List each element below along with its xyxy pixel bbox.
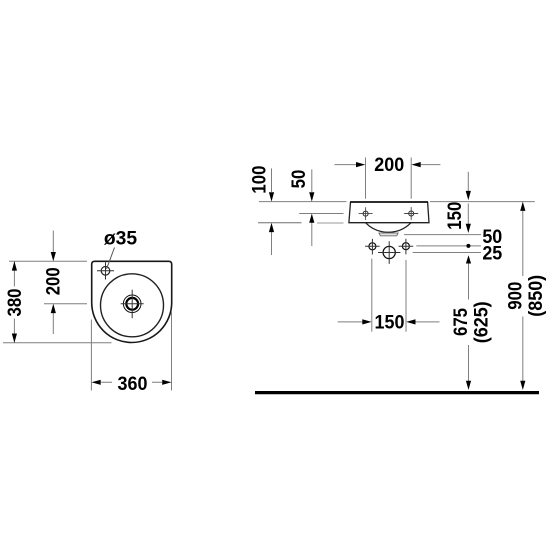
leader line ø35	[107, 248, 115, 270]
mounting hole left	[363, 211, 368, 216]
svg-text:360: 360	[118, 372, 148, 394]
faucet hole circle	[101, 267, 110, 276]
drain crosshair	[121, 290, 144, 318]
dim 150 right arrows	[466, 191, 471, 233]
svg-text:200: 200	[374, 154, 404, 176]
svg-text:150: 150	[444, 202, 465, 230]
drain stub	[379, 233, 398, 236]
floor line	[255, 391, 539, 394]
drain circle front	[383, 246, 395, 258]
dim 200 stems	[52, 231, 54, 335]
dim 675(625) arrows	[466, 255, 471, 390]
svg-text:675: 675	[450, 308, 471, 336]
drain inner circle	[126, 298, 138, 310]
dim 200 top line stubs	[334, 164, 440, 166]
svg-text:25: 25	[482, 242, 502, 264]
mounting hole left crosshair	[359, 207, 373, 220]
basin front outline	[349, 202, 429, 223]
fixing hole right crosshair	[399, 239, 414, 255]
dim 900(850) stem	[522, 211, 524, 381]
dim 150 bottom stubs	[338, 321, 440, 323]
ext line 150 bottom left (from left fixing hole)	[371, 259, 373, 332]
ext line top (y=261.3)	[9, 260, 87, 262]
dim 360 line	[101, 381, 162, 383]
dim 380 arrows	[12, 261, 17, 343]
ext line 150 bottom right (from right fixing hole)	[405, 260, 407, 332]
level line basin bottom y=222.8	[258, 222, 302, 224]
dim 200 top arrows	[356, 162, 421, 167]
dim 360 arrows	[91, 380, 171, 385]
bowl circle	[101, 274, 164, 337]
level line fixing holes y=245.9	[416, 245, 481, 247]
ext line drain center (y=303.8)	[44, 303, 87, 305]
faucet hole crosshair	[97, 262, 114, 279]
mounting hole right	[409, 211, 414, 216]
mounting hole right crosshair	[404, 207, 418, 220]
bowl underside arc	[366, 223, 412, 233]
level line top y=201.6 right part	[430, 201, 535, 203]
svg-text:900: 900	[505, 282, 526, 310]
svg-text:50: 50	[288, 170, 309, 189]
ext line 360 left	[90, 320, 92, 391]
dim 900(850) arrows	[520, 202, 525, 390]
dim 50 stems	[311, 169, 313, 246]
basin outline	[92, 261, 172, 342]
dot between 50 and 25	[466, 244, 470, 248]
dim 380 line	[13, 261, 15, 343]
drain front crosshair	[378, 241, 400, 264]
fixing hole left	[369, 243, 376, 250]
dim 675(625) stem	[468, 262, 470, 381]
ext line 360 right	[171, 311, 173, 391]
svg-text:(625): (625)	[470, 301, 492, 343]
fixing hole right	[402, 243, 409, 250]
drain outer circle	[123, 295, 141, 313]
dim 100 arrows	[269, 192, 274, 232]
svg-text:150: 150	[375, 311, 405, 333]
level line drain center y=252.5	[413, 252, 481, 254]
svg-text:ø35: ø35	[104, 229, 138, 250]
svg-text:200: 200	[43, 267, 64, 295]
dim 50 arrows	[309, 192, 314, 223]
level line mounting holes y=213.5	[299, 213, 343, 215]
dim 150 right stems	[467, 172, 469, 225]
dim 200 arrows	[51, 252, 56, 313]
svg-text:100: 100	[248, 166, 269, 194]
ext line bottom (y=342.8)	[3, 342, 112, 344]
svg-text:380: 380	[4, 288, 25, 316]
svg-text:(850): (850)	[524, 275, 546, 317]
dim 100 stems	[271, 168, 273, 255]
dim 200 top ext lines	[366, 158, 412, 199]
dim 150 bottom arrows	[362, 319, 415, 324]
fixing hole left crosshair	[365, 239, 380, 255]
level line stub bottom y=234.6	[404, 234, 481, 236]
level line top y=201.6 left part	[259, 201, 346, 203]
